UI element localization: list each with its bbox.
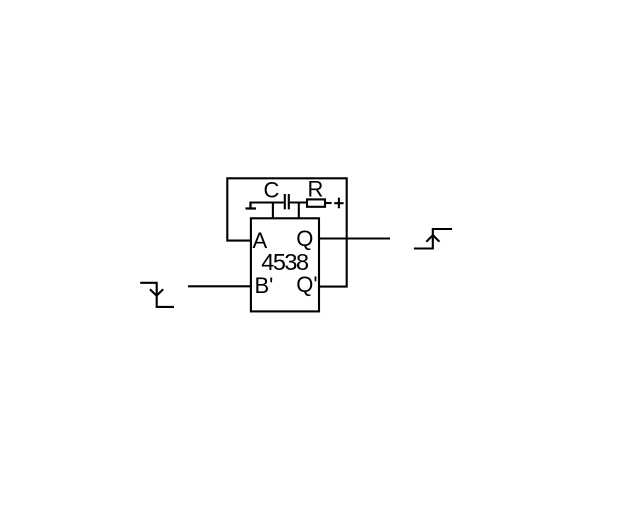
wire Q output bbox=[320, 237, 390, 239]
falling edge trigger symbol bbox=[140, 283, 174, 307]
wire pin Cx drop bbox=[272, 203, 274, 219]
svg-text:B': B' bbox=[255, 273, 274, 298]
svg-text:4538: 4538 bbox=[261, 249, 309, 275]
resistor R1 body bbox=[307, 199, 325, 206]
wire pin Rx drop bbox=[298, 203, 300, 219]
wire B' input bbox=[188, 285, 250, 287]
rising edge trigger symbol bbox=[414, 229, 452, 249]
wire C to R segment bbox=[290, 201, 306, 203]
ground bbox=[246, 202, 257, 209]
svg-text:Q': Q' bbox=[296, 272, 317, 297]
op-amp U1 4538 IC body bbox=[251, 218, 319, 311]
svg-text:R: R bbox=[308, 177, 324, 202]
wire R right stub bbox=[326, 202, 332, 204]
svg-text:C: C bbox=[264, 178, 280, 203]
rising edge arrowhead bbox=[426, 235, 439, 242]
node V+ plus sign bbox=[334, 198, 343, 209]
wire feedback loop (A pin to outer rail to Q' pin) bbox=[227, 178, 346, 286]
falling edge arrowhead bbox=[150, 289, 163, 296]
svg-text:Q: Q bbox=[296, 226, 313, 251]
wire C left segment bbox=[251, 201, 284, 203]
capacitor C1 plates bbox=[285, 194, 289, 209]
